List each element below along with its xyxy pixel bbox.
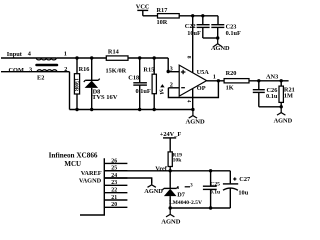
- svg-text:1: 1: [64, 50, 67, 57]
- wire E2 pin2 down to ground bus: [57, 66, 70, 110]
- wire COM to E2: [1, 71, 57, 73]
- pin 25 VAREF: [81, 166, 128, 177]
- node C22 junction: [201, 14, 204, 17]
- svg-text:10u: 10u: [238, 190, 248, 197]
- resistor R17: [157, 7, 180, 26]
- wire op-amp pin 2: [168, 82, 179, 89]
- node R21 top: [280, 79, 283, 82]
- wire E2 pin1 to R14: [56, 50, 106, 58]
- power port +24V_F: [160, 131, 182, 152]
- svg-text:C27: C27: [239, 176, 250, 183]
- node D8 top: [90, 56, 93, 59]
- svg-text:0.1uF: 0.1uF: [136, 88, 151, 95]
- svg-text:R15: R15: [143, 67, 154, 74]
- svg-text:VCC: VCC: [136, 4, 150, 11]
- svg-text:AGND: AGND: [274, 117, 293, 124]
- ground AGND (MCU VAGND): [144, 178, 163, 195]
- inductor E2 bottom winding: [37, 70, 57, 72]
- svg-text:22: 22: [111, 188, 117, 194]
- svg-text:C18: C18: [128, 75, 139, 82]
- node label Input pin 4: [7, 51, 32, 59]
- node C18 top: [138, 56, 141, 59]
- pin 3 stub of D7: [185, 183, 194, 188]
- svg-text:OP: OP: [197, 85, 206, 92]
- pin 21: [104, 195, 127, 201]
- node AN3 ground junction: [280, 105, 283, 108]
- component MCU Infineon XC866: [49, 152, 105, 216]
- node R15 top: [153, 56, 156, 59]
- wire feedback loop: [168, 81, 218, 98]
- capacitor C25: [203, 171, 220, 208]
- capacitor C23: [211, 16, 241, 38]
- ground AGND (bottom): [161, 208, 180, 225]
- wire op-amp pin 4 ground line: [186, 89, 193, 110]
- svg-text:10k: 10k: [173, 158, 183, 164]
- svg-text:21: 21: [111, 195, 117, 201]
- svg-text:AGND: AGND: [186, 118, 205, 125]
- svg-text:TVS 16V: TVS 16V: [92, 94, 118, 101]
- svg-text:R14: R14: [108, 49, 120, 56]
- svg-text:D7: D7: [177, 192, 185, 199]
- capacitor C22: [185, 16, 210, 38]
- svg-text:AGND: AGND: [211, 45, 230, 52]
- svg-text:1M: 1M: [284, 93, 293, 100]
- svg-text:0.1u: 0.1u: [210, 190, 220, 196]
- wire Vref rail: [104, 170, 230, 172]
- svg-text:AN3: AN3: [266, 73, 278, 80]
- ground AGND (right, under C26 R21): [274, 107, 293, 125]
- svg-text:AGND: AGND: [161, 218, 180, 225]
- resistor R21: [279, 81, 295, 107]
- capacitor C18: [128, 58, 151, 110]
- svg-text:R16: R16: [79, 66, 90, 73]
- svg-text:15K/0R: 15K/0R: [106, 68, 127, 75]
- svg-text:1500R: 1500R: [73, 78, 78, 92]
- resistor R19: [168, 152, 182, 171]
- node R16 top: [75, 56, 78, 59]
- node C25 top junction: [209, 169, 212, 172]
- svg-text:VAREF: VAREF: [81, 170, 102, 177]
- inductor E2 core: [37, 64, 58, 67]
- svg-text:26: 26: [111, 158, 117, 164]
- svg-text:LM4040-2.5V: LM4040-2.5V: [169, 200, 202, 206]
- svg-text:2: 2: [64, 66, 67, 73]
- wire C26 bottom to R21 bottom: [259, 106, 281, 108]
- svg-text:COM: COM: [9, 67, 24, 74]
- node Vref junction: [169, 169, 172, 172]
- svg-text:Infineon XC866: Infineon XC866: [49, 152, 98, 160]
- svg-text:2: 2: [170, 82, 173, 89]
- wire op-amp output pin 1: [207, 74, 225, 81]
- svg-text:AGND: AGND: [144, 188, 163, 195]
- node C25 bottom junction: [209, 206, 212, 209]
- svg-text:3: 3: [170, 66, 173, 73]
- svg-text:Input: Input: [7, 51, 23, 58]
- svg-text:10R: 10R: [157, 19, 168, 26]
- svg-text:4: 4: [186, 100, 192, 103]
- svg-text:0.1u: 0.1u: [266, 93, 278, 100]
- svg-text:C25: C25: [210, 181, 220, 187]
- wire into op-amp pin 3: [168, 58, 179, 73]
- wire R17 to C23 rail: [179, 15, 218, 17]
- resistor R14: [106, 49, 129, 75]
- node output junction: [217, 79, 220, 82]
- svg-text:MCU: MCU: [64, 160, 81, 168]
- diode D7 LM4040-2.5V: [162, 171, 202, 208]
- node pin8 rail junction: [191, 14, 194, 17]
- svg-text:VAGND: VAGND: [79, 178, 102, 185]
- pin 26: [104, 158, 127, 164]
- pin 24 VAGND: [79, 173, 128, 185]
- svg-text:3: 3: [29, 67, 32, 74]
- node C26 top: [257, 79, 260, 82]
- svg-text:C22: C22: [185, 23, 196, 30]
- node label COM pin 3: [9, 67, 33, 75]
- diode D8 TVS 16V: [84, 58, 118, 110]
- svg-text:8: 8: [186, 56, 192, 59]
- wire pin24 to AGND: [104, 178, 151, 183]
- node AGND junction: [216, 36, 219, 39]
- wire R14 to op-amp corner: [128, 57, 168, 59]
- svg-text:+24V_F: +24V_F: [160, 131, 182, 138]
- power port VCC: [136, 4, 150, 16]
- op-amp U5A: [179, 65, 209, 96]
- capacitor C26: [253, 81, 278, 107]
- resistor R16: [73, 58, 90, 110]
- wire C22 bottom to C23 bottom: [203, 37, 218, 39]
- svg-text:20: 20: [111, 202, 117, 208]
- svg-text:R17: R17: [157, 7, 168, 14]
- ground AGND (top, under C22 C23): [211, 38, 230, 52]
- wire Input to E2: [1, 57, 56, 59]
- svg-text:10uF: 10uF: [187, 30, 201, 37]
- svg-text:E2: E2: [37, 75, 44, 82]
- ground AGND (bus end): [186, 110, 205, 126]
- wire Vref bottom rail: [170, 207, 230, 209]
- pin 23: [104, 180, 127, 186]
- wire VCC to R17: [143, 15, 158, 17]
- svg-text:1: 1: [213, 74, 216, 81]
- node op-amp pin3 junction: [167, 70, 170, 73]
- pin 20: [104, 202, 127, 208]
- svg-text:U5A: U5A: [197, 69, 210, 76]
- wire R20 to AN3: [249, 80, 289, 82]
- wire op-amp pin 8 power line: [186, 16, 193, 73]
- svg-text:R20: R20: [226, 70, 237, 77]
- svg-text:23: 23: [111, 180, 117, 186]
- wire analog ground bus: [70, 109, 193, 111]
- node bus junctions: [75, 108, 194, 111]
- inductor E2 top winding: [36, 58, 56, 60]
- resistor R20: [224, 70, 249, 92]
- svg-text:0.1uF: 0.1uF: [226, 30, 241, 37]
- label R15 value rotated: [157, 84, 164, 96]
- capacitor C27 polarized: [223, 171, 250, 208]
- resistor R15: [143, 58, 156, 110]
- node D7 bottom junction: [169, 206, 172, 209]
- pin 22: [104, 188, 127, 194]
- svg-text:1K: 1K: [226, 85, 234, 92]
